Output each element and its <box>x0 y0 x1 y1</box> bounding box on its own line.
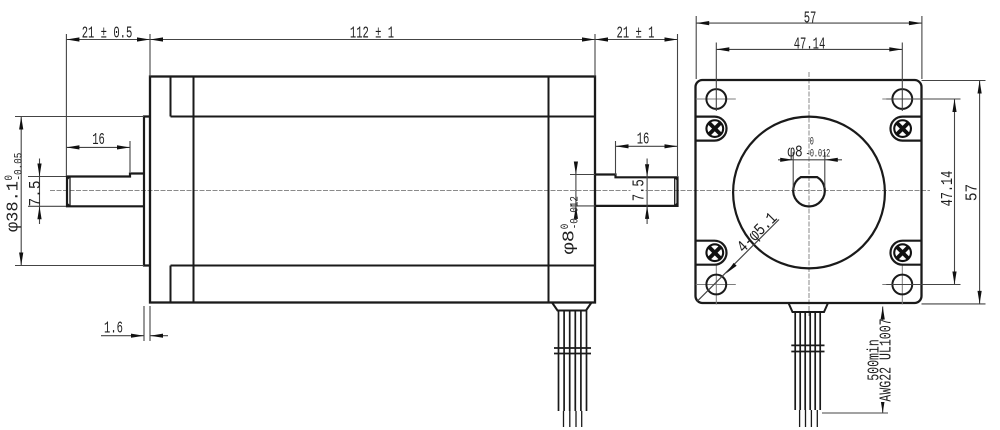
mounting hole top-right <box>892 89 912 109</box>
rear shaft end chamfer corners <box>675 178 678 206</box>
phi 38.1 dimension <box>15 116 144 118</box>
svg-text:47.14: 47.14 <box>794 35 826 54</box>
svg-text:21 ± 0.5: 21 ± 0.5 <box>82 24 133 43</box>
svg-text:57: 57 <box>804 9 817 28</box>
front view 57 right dimension <box>922 80 986 82</box>
svg-text:φ38.1: φ38.1 <box>5 181 24 232</box>
svg-text:-0.012: -0.012 <box>806 147 831 160</box>
front shaft phi 8 dimension <box>792 152 794 190</box>
front view wire tips <box>800 410 818 427</box>
rear shaft 7.5 dimension <box>646 159 648 225</box>
side view wire bundle <box>559 311 587 412</box>
mounting hole bottom-right <box>892 275 912 295</box>
front view 47.14 right dimension <box>886 98 960 100</box>
top dimension extension lines <box>65 34 67 176</box>
front view 47.14 top dimension <box>715 43 717 112</box>
front end cap joint vertical line <box>193 77 195 303</box>
pilot circle phi 38.1 <box>733 117 885 269</box>
svg-text:21 ± 1: 21 ± 1 <box>617 24 655 43</box>
screw head bottom-left <box>705 243 724 262</box>
front view vertical centerline <box>808 72 810 316</box>
mounting hole top-left <box>706 89 726 109</box>
front shaft outline <box>67 174 144 207</box>
svg-text:1.6: 1.6 <box>104 319 123 338</box>
4-phi5.1 leader <box>697 220 779 302</box>
shaft D-profile hole <box>793 177 825 206</box>
svg-text:-0.012: -0.012 <box>570 196 582 229</box>
front view 57 top dimension <box>695 16 697 79</box>
screw slot bottom-right <box>891 241 922 265</box>
svg-text:47.14: 47.14 <box>939 171 958 207</box>
svg-text:112 ± 1: 112 ± 1 <box>350 24 394 43</box>
lead wire 500min dimension <box>822 412 888 414</box>
front end cap inner vertical line (upper) <box>170 77 172 117</box>
screw head top-right <box>893 119 912 138</box>
svg-text:-0.05: -0.05 <box>14 153 26 181</box>
rear shaft phi 8 dimension <box>570 174 595 176</box>
front shaft 7.5 dimension <box>28 176 66 178</box>
main horizontal centerline <box>50 190 930 192</box>
front view cable grommet <box>789 303 829 312</box>
rear shaft chamfer line <box>674 177 676 206</box>
svg-text:7.5: 7.5 <box>26 180 45 206</box>
pilot 1.6 dimension <box>143 306 145 341</box>
body corner line lower <box>171 265 596 267</box>
svg-text:φ8: φ8 <box>559 230 579 254</box>
screw head bottom-right <box>893 243 912 262</box>
mounting hole bottom-left <box>706 275 726 295</box>
motor body outline <box>150 77 595 303</box>
rear shaft outline <box>595 175 678 206</box>
front shaft chamfer line <box>69 177 71 207</box>
front end cap inner vertical line (lower) <box>170 266 172 303</box>
svg-text:4-φ5.1: 4-φ5.1 <box>733 209 782 258</box>
pilot boss <box>144 117 150 266</box>
svg-text:16: 16 <box>637 130 650 149</box>
svg-text:57: 57 <box>962 184 981 201</box>
svg-text:AWG22 UL1007: AWG22 UL1007 <box>878 318 897 401</box>
side view wire tips <box>564 411 582 427</box>
body corner line upper <box>171 116 596 118</box>
mounting hole crosshairs <box>696 99 923 305</box>
front shaft 16 dimension <box>129 141 131 172</box>
side view cable tie bands <box>554 347 591 349</box>
rear end cap joint vertical line <box>548 77 550 303</box>
svg-text:φ8: φ8 <box>787 142 802 162</box>
top dimension line <box>66 39 677 41</box>
front view cable tie bands <box>791 344 824 346</box>
flange square <box>696 80 922 303</box>
rear shaft 16 dimension <box>615 141 617 175</box>
svg-text:16: 16 <box>92 131 105 150</box>
screw head top-left <box>705 119 724 138</box>
front view wire bundle <box>795 312 820 410</box>
screw slot top-right <box>890 117 921 141</box>
screw slot bottom-left <box>696 241 727 265</box>
svg-text:7.5: 7.5 <box>631 179 649 201</box>
side view cable grommet <box>552 303 592 311</box>
screw slot top-left <box>696 117 727 141</box>
front shaft end chamfer corners <box>67 177 70 206</box>
